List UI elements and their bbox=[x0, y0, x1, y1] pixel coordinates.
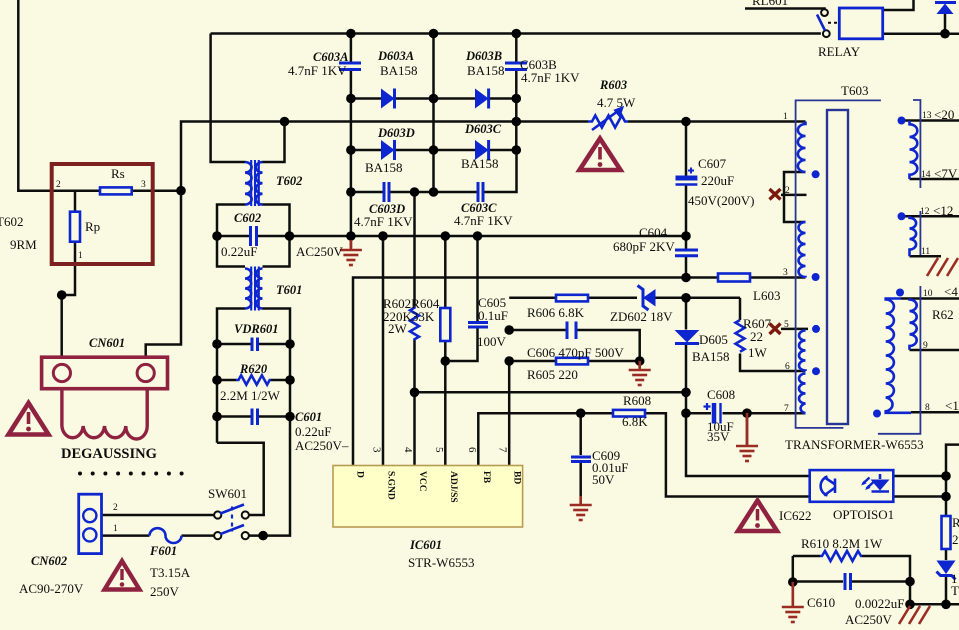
wire: VDR601 right lead bbox=[259, 343, 290, 346]
svg-text:FB: FB bbox=[481, 471, 491, 484]
svg-text:7: 7 bbox=[784, 404, 789, 414]
svg-text:R62: R62 bbox=[932, 307, 954, 322]
node: mid bus / R604 bbox=[441, 231, 451, 241]
svg-text:2.2M 1/2W: 2.2M 1/2W bbox=[220, 388, 281, 403]
node: mid bus / S.GND bbox=[378, 231, 388, 241]
svg-text:OPTOISO1: OPTOISO1 bbox=[833, 507, 894, 522]
wire: C608 right lead to pin7 node bbox=[723, 412, 748, 415]
svg-text:D603C: D603C bbox=[464, 122, 502, 136]
wire: T602 bottom right link down to C602 bbox=[263, 205, 290, 267]
connector CN602 pin circles bbox=[83, 509, 96, 542]
ground: AC250V bridge ground bbox=[340, 240, 362, 265]
resistor Rs bbox=[100, 187, 132, 194]
wire: C601 box bottom to SW601 upper right contact bbox=[217, 443, 264, 515]
capacitor C603B bbox=[505, 63, 527, 70]
node: R605-C606 right ground bbox=[635, 356, 645, 366]
svg-text:5: 5 bbox=[784, 320, 789, 330]
svg-text:BA158: BA158 bbox=[467, 63, 505, 78]
wire: C603C right lead up to D603C row bbox=[484, 150, 517, 192]
wire: bridge column x=433.5 top bus to C603 row bbox=[432, 34, 435, 193]
node: R608 line / C609 bbox=[576, 408, 586, 418]
wire: C610 right lead bbox=[852, 580, 910, 583]
transformer T603 phase dot pin6 side bbox=[812, 367, 820, 375]
wire: relay coil top-right link to top edge bbox=[883, 0, 914, 10]
transformer T603 phase dot pin5 side bbox=[812, 325, 820, 333]
svg-text:1W: 1W bbox=[748, 345, 768, 360]
capacitor C604 bbox=[675, 250, 698, 256]
transformer T603 phase dot pin2 side bbox=[812, 170, 820, 178]
node: D603B cathode bbox=[512, 94, 522, 104]
wire: drain line y=277.5 from IC601 D pin to L603 bbox=[353, 278, 718, 466]
capacitor C603C bbox=[478, 182, 483, 202]
svg-text:14: 14 bbox=[921, 170, 931, 180]
svg-text:BA158: BA158 bbox=[365, 160, 403, 175]
node: R605 left / BD column bbox=[504, 356, 514, 366]
svg-text:6: 6 bbox=[466, 447, 478, 453]
wire: T603 pin7 wire bbox=[747, 412, 806, 415]
node: C610 left / ground bbox=[788, 577, 798, 587]
wire: D603B row to x=516 column bbox=[489, 97, 517, 100]
wire: R603 line y=121.5 from T602 tap to R603 bbox=[285, 120, 589, 123]
wire: relay upper contact riser and top link bbox=[745, 9, 825, 10]
node: mid bus / C607-C604 bbox=[681, 231, 691, 241]
wire: C602 left plate lead bbox=[217, 235, 249, 238]
node: mid bus ground AC250V bbox=[346, 231, 356, 241]
wire: left AC input vertical from top edge to Rs box pin 2 bbox=[18, 0, 52, 191]
diode D603A bbox=[381, 89, 395, 109]
capacitor C607 electrolytic bbox=[676, 168, 698, 185]
svg-text:10: 10 bbox=[923, 289, 933, 299]
transformer T603 secondary winding pins13-14 bbox=[910, 121, 918, 180]
svg-text:1: 1 bbox=[113, 524, 118, 534]
node: D603D anode bbox=[346, 145, 356, 155]
wire: D605 bottom lead down through nodes to opto upper-left bbox=[686, 344, 810, 476]
wire: R610 line y=556 left lead bbox=[793, 555, 820, 558]
wire: FB pin up and R608 line y=413.2 bbox=[478, 413, 613, 465]
wire: T603 pin8 wire black part bbox=[911, 411, 959, 414]
wire: C607 bottom lead bbox=[685, 186, 688, 237]
svg-text:RL601: RL601 bbox=[752, 0, 788, 8]
transformer T603 phase dot pin3 side bbox=[812, 273, 820, 281]
svg-text:CN602: CN602 bbox=[31, 554, 67, 568]
node: T602 tap on R603 line bbox=[280, 117, 290, 127]
svg-text:1: 1 bbox=[78, 251, 83, 261]
transformer T601 core lines bbox=[251, 267, 259, 311]
wire: drain line from L603 to T603 pin3 bbox=[750, 276, 806, 279]
svg-text:2: 2 bbox=[785, 186, 790, 196]
resistor R604 box bbox=[440, 308, 450, 341]
X mark T603 pin2 bbox=[770, 189, 781, 200]
wire: T603 pin2 wire with X bbox=[781, 194, 807, 197]
svg-text:AC250V: AC250V bbox=[296, 244, 344, 259]
wire: C606 line y=330 bbox=[509, 329, 566, 332]
wire: C603D row middle bbox=[390, 191, 434, 194]
wire: bridge column x=350.9 below C603A bbox=[350, 71, 353, 248]
wire: feedback line y=392.3 from VCC column to D605 column bbox=[415, 391, 687, 394]
svg-text:<12: <12 bbox=[933, 203, 953, 218]
connector CN601 body bbox=[42, 357, 168, 389]
svg-text:R606 6.8K: R606 6.8K bbox=[527, 305, 585, 320]
wire: C608 line left lead bbox=[686, 412, 711, 415]
resistor R603 fusible zigzag with arrow bbox=[588, 108, 628, 130]
degaussing posistor box Rs/Rp (dark red) bbox=[52, 164, 153, 264]
node: opto upper-right bbox=[941, 471, 951, 481]
wire: R610 right lead to right column bbox=[862, 556, 910, 604]
resistor R605 box bbox=[556, 358, 588, 365]
capacitor C603D bbox=[384, 182, 389, 202]
wire: bridge column x=350.9 from top bus to ground node bbox=[350, 34, 353, 62]
transformer T603 primary winding pins1-2 bbox=[798, 122, 806, 173]
wire: R606 right lead to ZD602 bbox=[588, 297, 637, 300]
IC601 body STR-W6553 bbox=[333, 466, 523, 528]
wire: S.GND column x=383 from mid bus to IC601 bbox=[382, 236, 385, 466]
wire: C606 right lead to right column bbox=[577, 330, 640, 361]
svg-text:IC601: IC601 bbox=[409, 538, 442, 552]
node: drain line / C604 bbox=[681, 273, 691, 283]
svg-text:VDR601: VDR601 bbox=[234, 322, 278, 336]
diode D603B bbox=[475, 89, 489, 109]
wire: main mid bus y=236 from C602 to C604/C607 node bbox=[290, 235, 687, 238]
resistor R602 zigzag bbox=[410, 307, 419, 341]
wire: R607 top lead down from zener line bbox=[739, 298, 742, 320]
resistor R610 zigzag bbox=[820, 551, 862, 561]
degaussing coil bbox=[62, 389, 147, 439]
node: mid bus / C605 bbox=[473, 231, 483, 241]
transformer T603 outline bracket right bottom bbox=[878, 286, 921, 434]
transformer T602 core lines bbox=[251, 160, 259, 206]
svg-text:C604: C604 bbox=[639, 225, 668, 240]
node: R603 line / x516 column bbox=[512, 117, 522, 127]
svg-text:C610: C610 bbox=[807, 595, 835, 610]
wire: C604 bottom lead bbox=[685, 257, 688, 278]
wire: T603 pin5 wire bbox=[781, 328, 808, 331]
ground: C609 ground bbox=[570, 496, 592, 520]
svg-text:250V: 250V bbox=[150, 584, 180, 599]
svg-text:L603: L603 bbox=[753, 288, 780, 303]
wire: Rp top lead bbox=[74, 191, 77, 212]
relay RL601 link dashes bbox=[828, 22, 839, 24]
capacitor C603A bbox=[339, 63, 361, 70]
wire: T601 bottom right link down to VDR601 box bbox=[263, 309, 291, 417]
svg-text:Rp: Rp bbox=[85, 219, 100, 234]
svg-text:VCC: VCC bbox=[417, 471, 427, 492]
wire: T601 bottom left link down to VDR601 box bbox=[217, 309, 245, 443]
wire: C608 ground stem bbox=[746, 413, 749, 445]
wire: opto upper-right pin bbox=[893, 475, 946, 478]
wire: C601 right lead bbox=[259, 415, 290, 418]
svg-text:AC250V: AC250V bbox=[845, 612, 893, 627]
wire: R6xx column between resistor and zener bottom-right bbox=[945, 549, 948, 560]
wire: T603 pin14 wire bbox=[910, 178, 959, 181]
ground: R605 network ground bbox=[629, 361, 651, 385]
svg-text:ZD602 18V: ZD602 18V bbox=[610, 309, 673, 324]
node: zener line / D605 bbox=[681, 293, 691, 303]
wire: R603 line from R603 to C607 node to T603 pin1 bbox=[628, 120, 806, 123]
wire: C603D row y=192 left bbox=[351, 191, 383, 194]
wire: D603A row y=98.5 bbox=[351, 97, 381, 100]
svg-text:IC622: IC622 bbox=[779, 508, 812, 523]
node: C602 left / mid bus bbox=[212, 231, 222, 241]
svg-text:4.7nF 1KV: 4.7nF 1KV bbox=[454, 213, 513, 228]
wire: R604 bottom to ADJ/SS junction and pin bbox=[444, 341, 447, 466]
svg-text:S.GND: S.GND bbox=[386, 471, 396, 500]
capacitor C605 bbox=[468, 323, 488, 328]
svg-text:T603: T603 bbox=[841, 83, 868, 98]
wire: D603C row to x=516 column bbox=[489, 149, 517, 152]
zener diode bottom-right bbox=[937, 561, 956, 580]
wire: T602 bottom left link down to C602 bbox=[217, 205, 245, 267]
wire: D603D-D603C row middle bbox=[395, 149, 476, 152]
svg-text:2W: 2W bbox=[388, 321, 408, 336]
wire: R605 right lead to ground node bbox=[588, 361, 640, 368]
node: top bus / bridge mid column bbox=[429, 29, 439, 39]
svg-text:<7V: <7V bbox=[934, 166, 958, 181]
node: C608 left bbox=[681, 408, 691, 418]
svg-text:RELAY: RELAY bbox=[818, 44, 861, 59]
transformer T603 secondary winding pins10-9 bbox=[910, 299, 917, 350]
chassis ground: T603 pin11 bbox=[927, 258, 958, 276]
svg-text:Rs: Rs bbox=[111, 166, 125, 181]
svg-text:T601: T601 bbox=[276, 283, 302, 297]
wire: T603 primary tap step pin2 bbox=[784, 172, 806, 222]
resistor R620 zigzag bbox=[236, 375, 271, 384]
wire: C602 right plate lead bbox=[258, 235, 290, 238]
svg-text:8: 8 bbox=[925, 403, 930, 413]
node: top bus / C603A bbox=[346, 29, 356, 39]
warning triangle near F601 bbox=[105, 561, 140, 590]
wire: CN602 pin1 wire to F601 bbox=[102, 534, 150, 537]
svg-text:TRANSFORMER-W6553: TRANSFORMER-W6553 bbox=[785, 437, 924, 452]
node: C601 right bbox=[285, 412, 295, 422]
ground: C610 left ground bbox=[782, 582, 804, 622]
fuse F601 bbox=[150, 528, 182, 543]
node: ADJ/SS / R604 / C605 bbox=[441, 356, 451, 366]
wire: C605 bottom lead to ADJ/SS junction bbox=[445, 328, 477, 361]
wire: C609 top lead from R608 line bbox=[579, 413, 582, 455]
wire: C601 right side down to SW601 lower junction bbox=[249, 417, 290, 536]
svg-text:11: 11 bbox=[921, 247, 930, 257]
wire: top AC bus y=33.5 from x=210 to relay switch bbox=[211, 32, 821, 35]
svg-text:3: 3 bbox=[371, 447, 383, 453]
node: VDR601 left bbox=[212, 339, 222, 349]
transformer T601 left winding bbox=[245, 269, 251, 309]
wire: D603D row y=150 bbox=[351, 149, 381, 152]
wire: C609 bottom lead to ground bbox=[579, 463, 582, 504]
warning triangle near IC622 bbox=[738, 501, 777, 532]
node: Rp pin1 corner bbox=[57, 290, 67, 300]
resistor R606 box bbox=[556, 295, 588, 302]
svg-text:4.7nF 1KV: 4.7nF 1KV bbox=[354, 214, 413, 229]
switch SW601 levers bbox=[220, 505, 244, 535]
wire: C610 line y=581.5 left lead bbox=[793, 580, 843, 583]
node: C602 right / mid bus bbox=[285, 231, 295, 241]
svg-text:D: D bbox=[355, 471, 365, 478]
svg-text:100V: 100V bbox=[477, 334, 507, 349]
svg-text:SW601: SW601 bbox=[208, 486, 247, 501]
capacitor C606 bbox=[567, 322, 576, 340]
wire: C603C row bbox=[434, 191, 478, 194]
svg-text:4.7nF 1KV: 4.7nF 1KV bbox=[521, 70, 580, 85]
svg-text:BA158: BA158 bbox=[380, 63, 418, 78]
svg-text:R: R bbox=[952, 515, 959, 530]
wire: T603 pin9 wire bbox=[910, 349, 959, 352]
svg-text:C603A: C603A bbox=[313, 50, 348, 64]
svg-text:R610 8.2M 1W: R610 8.2M 1W bbox=[801, 536, 883, 551]
svg-text:450V(200V): 450V(200V) bbox=[688, 193, 754, 208]
svg-text:4.7nF 1KV: 4.7nF 1KV bbox=[288, 63, 347, 78]
relay RL601 lever bbox=[817, 15, 825, 31]
node: top bus / C603B bbox=[512, 29, 522, 39]
node: VDR601 right bbox=[285, 339, 295, 349]
svg-text:AC250V–: AC250V– bbox=[295, 438, 349, 453]
svg-text:STR-W6553: STR-W6553 bbox=[408, 555, 474, 570]
node: C603D row / mid column bbox=[429, 187, 439, 197]
svg-text:BD: BD bbox=[512, 471, 522, 484]
node: C603D row left bbox=[346, 187, 356, 197]
svg-text:R608: R608 bbox=[623, 393, 651, 408]
diode D605 bbox=[675, 330, 700, 344]
svg-text:9: 9 bbox=[923, 341, 928, 351]
warning triangle near R603 bbox=[580, 139, 621, 171]
node: opto lower-right bbox=[941, 492, 951, 502]
svg-text:ADJ/SS: ADJ/SS bbox=[448, 471, 458, 503]
node: C601 left bbox=[212, 412, 222, 422]
svg-text:12: 12 bbox=[920, 207, 930, 217]
svg-text:2: 2 bbox=[56, 180, 61, 190]
zener diode ZD602 bbox=[638, 286, 656, 311]
node: Rs pin3 bbox=[176, 186, 186, 196]
svg-text:0.1uF: 0.1uF bbox=[478, 308, 508, 323]
diode D603C bbox=[475, 140, 489, 160]
wire: R604 column from mid bus to R604 top bbox=[444, 236, 447, 308]
wire: VCC column from R602 to IC601 VCC pin bbox=[413, 340, 416, 466]
wire: C601 left lead bbox=[217, 415, 251, 418]
svg-text:T3.15A: T3.15A bbox=[150, 565, 191, 580]
node: R620 right bbox=[285, 375, 295, 385]
capacitor C601 bbox=[252, 409, 258, 426]
svg-text:D605: D605 bbox=[699, 332, 728, 347]
svg-text:35V: 35V bbox=[707, 429, 730, 444]
node: relay output / diode bbox=[940, 29, 950, 39]
svg-text:DEGAUSSING: DEGAUSSING bbox=[61, 446, 157, 462]
wire: opto lower-right pin bbox=[893, 495, 946, 498]
svg-text:3: 3 bbox=[783, 268, 788, 278]
svg-text:2: 2 bbox=[113, 503, 118, 513]
svg-text:22: 22 bbox=[750, 329, 763, 344]
svg-text:C608: C608 bbox=[707, 387, 735, 402]
svg-text:7: 7 bbox=[497, 447, 509, 453]
wire: BD column from R605 node down to IC601 BD pin bbox=[508, 361, 511, 466]
wire: top bus vertical drop to T602 left winding bbox=[211, 34, 245, 163]
wire: T603 pin10 wire bbox=[901, 297, 959, 300]
wire: VDR601 left lead bbox=[217, 343, 251, 346]
wire: T602 right winding top link up to R603 line bbox=[263, 122, 285, 163]
chassis ground: bottom AC250V bbox=[899, 606, 930, 624]
svg-text:<1: <1 bbox=[945, 398, 959, 413]
wire: opto right pins vertical feed from right edge bbox=[946, 445, 959, 516]
transformer T602 right winding bbox=[256, 162, 263, 205]
resistor R607 zigzag bbox=[736, 320, 745, 352]
svg-text:<20: <20 bbox=[934, 107, 954, 122]
capacitor C609 bbox=[571, 457, 591, 462]
svg-text:13: 13 bbox=[922, 111, 932, 121]
node: R603 line / C607 top bbox=[681, 117, 691, 127]
transformer T603 primary winding pins6-7 bbox=[799, 374, 806, 414]
node: C610 right bbox=[905, 577, 915, 587]
transformer T603 phase dot pin10 bbox=[896, 289, 904, 297]
connector CN601 pin circles bbox=[53, 364, 154, 381]
wire: T603 pin13 wire bbox=[898, 119, 959, 122]
node: bottom-right rail / C610 column bbox=[905, 600, 915, 610]
capacitor C608 electrolytic bbox=[704, 403, 721, 424]
switch SW601 contacts bbox=[214, 511, 249, 539]
svg-text:0.0022uF: 0.0022uF bbox=[855, 596, 904, 611]
svg-text:T602: T602 bbox=[276, 174, 302, 188]
wire: CN602 pin2 wire to SW601 bbox=[102, 514, 215, 517]
node: D603D cathode / D603C anode bbox=[429, 145, 439, 155]
node: feedback line / D605 column bbox=[681, 388, 691, 398]
svg-text:R620: R620 bbox=[239, 362, 268, 376]
svg-text:T: T bbox=[951, 583, 959, 598]
node: feedback line / VCC column bbox=[410, 388, 420, 398]
svg-text:4.7 5W: 4.7 5W bbox=[597, 95, 636, 110]
wire: zener bottom-right to bottom node bbox=[945, 576, 948, 604]
svg-text:R605 220: R605 220 bbox=[527, 367, 578, 382]
node: C603D row / R602 top bbox=[410, 187, 420, 197]
wire: R607 bottom lead to T603 pin6 wire bbox=[740, 354, 806, 372]
node: bottom-right rail / zener column bbox=[941, 600, 951, 610]
inductor L603 box bbox=[718, 274, 750, 282]
wire: R610 left vertical with ground bbox=[792, 556, 795, 606]
resistor R608 box bbox=[613, 410, 645, 417]
svg-text:C602: C602 bbox=[234, 211, 261, 225]
resistor Rp bbox=[70, 212, 80, 242]
node: SW601 lower output bbox=[258, 531, 268, 541]
X mark T603 pin5 bbox=[770, 324, 781, 335]
wire: C607 top lead bbox=[685, 122, 688, 177]
wire: degauss return x=181 down to CN601 right pin bbox=[146, 191, 181, 357]
svg-text:6: 6 bbox=[785, 362, 790, 372]
svg-text:2: 2 bbox=[952, 532, 959, 547]
node: C608 right / ground bbox=[742, 408, 752, 418]
svg-text:6.8K: 6.8K bbox=[622, 414, 648, 429]
wire: top-right diode cathode lead bbox=[944, 14, 947, 34]
node: R620 left bbox=[212, 375, 222, 385]
transformer T601 right winding bbox=[256, 269, 262, 309]
optocoupler phototransistor bbox=[821, 477, 835, 496]
resistor R62x box bottom-right bbox=[942, 516, 951, 549]
svg-text:D603A: D603A bbox=[377, 49, 414, 63]
wire: Rs box internal pin2 to Rs and Rp tap bbox=[52, 189, 100, 192]
svg-text:CN601: CN601 bbox=[89, 336, 125, 350]
wire: C605 column from mid bus to C605 top bbox=[476, 236, 479, 322]
capacitor C602 bbox=[251, 226, 257, 246]
svg-text:4: 4 bbox=[402, 447, 414, 453]
varistor VDR601 bbox=[252, 338, 258, 352]
transformer T603 outline bracket right top bbox=[913, 100, 920, 188]
transformer T603 primary winding pins5-6 bbox=[799, 331, 806, 372]
transformer T603 phase dot pin12 bbox=[898, 212, 906, 220]
svg-text:9RM: 9RM bbox=[10, 237, 37, 252]
wire: bridge column x=516.3 below C603B bbox=[515, 71, 518, 150]
svg-text:0.22uF: 0.22uF bbox=[295, 424, 331, 439]
dotted separator bbox=[78, 472, 184, 476]
transformer T603 phase dot pin8 bbox=[873, 410, 881, 418]
svg-text:C606 470pF 500V: C606 470pF 500V bbox=[527, 345, 624, 360]
wire: R605 line y=361 bbox=[509, 360, 556, 363]
transformer T603 secondary winding pins12-11 bbox=[910, 216, 917, 256]
svg-text:3: 3 bbox=[141, 180, 146, 190]
